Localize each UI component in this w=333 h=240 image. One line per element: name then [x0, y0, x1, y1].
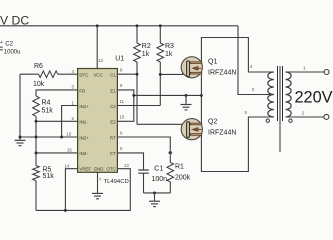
svg-text:R4: R4	[42, 99, 51, 106]
svg-text:RT: RT	[110, 135, 116, 140]
wire: VREF pin 14 down to bottom rail	[65, 169, 77, 211]
svg-text:VCC: VCC	[94, 73, 103, 78]
resistor R5 51k (vertical)	[33, 166, 55, 211]
wire: bottom rail (OTC pin 13 loop)	[36, 169, 130, 211]
svg-text:16: 16	[67, 132, 72, 137]
node: left vertical junction	[19, 136, 22, 139]
svg-text:E1: E1	[110, 88, 116, 93]
svg-text:C2: C2	[110, 104, 116, 109]
phase dot primary	[266, 119, 269, 122]
svg-text:GND: GND	[94, 167, 104, 172]
svg-text:13: 13	[124, 163, 129, 168]
node: R3/gate junction	[159, 73, 162, 76]
node: divider/IN2+ junction	[35, 136, 38, 139]
wire: Q2 gate run from R2	[137, 124, 186, 130]
node: VREF junction	[64, 209, 67, 212]
wire: secondary top lead	[286, 71, 325, 73]
svg-text:100n: 100n	[152, 176, 168, 183]
wire: pin 5 CT to C1	[117, 153, 143, 170]
wire: VCC stub from rail to IC	[96, 26, 98, 69]
node: R2/pin8 junction	[136, 73, 139, 76]
terminal: output bottom	[324, 114, 329, 119]
ground (left)	[15, 140, 26, 145]
node: timing ground junction	[153, 191, 156, 194]
svg-text:DTC: DTC	[79, 73, 88, 78]
wire: pin 15 IN2- to R5	[36, 152, 78, 154]
svg-text:Q1: Q1	[208, 58, 217, 65]
capacitor C1 100n	[138, 166, 167, 193]
node: R2 top junction	[136, 24, 139, 27]
wire: E1/E2 emitter jog	[117, 90, 133, 121]
wire: pin 1 IN1+ down to IN2+	[62, 106, 78, 138]
svg-text:+: +	[0, 40, 3, 46]
resistor R3 1k (vertical)	[157, 26, 174, 106]
wire: ground run to MOSFET sources	[134, 94, 202, 96]
svg-text:TL494CD: TL494CD	[104, 179, 129, 185]
svg-text:R3: R3	[165, 43, 174, 50]
node: R5 top junction	[35, 151, 38, 154]
svg-text:R6: R6	[34, 63, 43, 70]
wire: Q1 drain up and over to transformer primary top	[201, 38, 273, 96]
node: ground stub junction	[185, 94, 188, 97]
IC pin labels	[79, 73, 116, 172]
terminal: output top	[324, 70, 329, 75]
svg-text:220V: 220V	[295, 89, 333, 107]
svg-text:14: 14	[65, 164, 70, 169]
svg-text:R1: R1	[175, 163, 184, 170]
wire: secondary bottom lead	[286, 116, 325, 118]
wire: pin 6 RT to R1	[117, 137, 170, 150]
wire: center tap from rail	[238, 26, 274, 95]
svg-text:R2: R2	[142, 43, 151, 50]
wire: FB pin 3 to R4 top	[36, 89, 78, 91]
wire: IC GND stub	[97, 172, 99, 193]
svg-text:OTC: OTC	[106, 167, 115, 172]
svg-text:U1: U1	[115, 56, 124, 63]
wire: pin 16 IN2+ to left vertical	[20, 136, 78, 138]
wire: ground stub	[154, 193, 156, 201]
wire: pin 11 C2 to R3	[117, 105, 160, 107]
svg-text:IRFZ44N: IRFZ44N	[208, 69, 236, 76]
wire: divider vertical R4 to R5	[35, 121, 37, 165]
svg-text:VREF: VREF	[79, 167, 91, 172]
svg-text:E2: E2	[110, 120, 116, 125]
svg-text:1k: 1k	[142, 51, 150, 58]
svg-text:51k: 51k	[43, 173, 55, 180]
transformer secondary winding	[286, 72, 292, 117]
resistor R1 200k (pot/vertical)	[167, 150, 191, 193]
svg-text:C2: C2	[5, 42, 13, 48]
transistor Q2 IRFZ44N (NMOS, mirrored)	[181, 118, 236, 140]
node: source junction	[200, 94, 203, 97]
ground (timing)	[149, 201, 160, 206]
svg-text:15: 15	[67, 148, 72, 153]
wire: C1/R1 bottom rail	[144, 192, 171, 194]
svg-text:C1: C1	[154, 166, 163, 173]
node: R4 bottom junction	[35, 120, 38, 123]
svg-text:51k: 51k	[42, 108, 54, 115]
wire: +12V rail	[0, 25, 238, 27]
wire: left vertical to ground	[19, 74, 21, 140]
node: IN1+/IN2+ junction	[60, 136, 63, 139]
svg-text:IN1+: IN1+	[79, 104, 89, 109]
node: emitter junction	[132, 94, 135, 97]
svg-text:IN1-: IN1-	[79, 120, 88, 125]
PWM IC U1 TL494CD body	[78, 69, 118, 173]
svg-text:12: 12	[98, 58, 103, 63]
svg-text:200k: 200k	[175, 175, 191, 182]
svg-text:C1: C1	[110, 73, 116, 78]
svg-text:IN2-: IN2-	[79, 151, 88, 156]
node: R3 top junction	[159, 24, 162, 27]
node: VCC junction	[96, 24, 99, 27]
resistor R2 1k (vertical)	[134, 26, 151, 125]
svg-text:10k: 10k	[33, 81, 45, 88]
svg-text:IN2+: IN2+	[79, 135, 89, 140]
phase dot secondary	[289, 119, 292, 122]
svg-text:CT: CT	[110, 151, 116, 156]
svg-text:11: 11	[120, 99, 125, 104]
wire: Q1 gate run from R3	[160, 68, 186, 74]
ground (under Q1 source)	[181, 95, 192, 110]
transistor Q1 IRFZ44N (NMOS)	[181, 57, 236, 78]
svg-text:IRFZ44N: IRFZ44N	[208, 129, 236, 136]
svg-text:FB: FB	[79, 88, 85, 93]
ground (IC)	[92, 193, 103, 198]
transformer T1 primary winding (center tapped)	[268, 72, 274, 117]
IC pin numbers	[65, 67, 130, 182]
resistor R4 51k (vertical)	[33, 90, 54, 122]
wire: pin 2 IN1- to R4 bottom	[36, 120, 78, 122]
wire: Q2 drain down and over to transformer primary bottom	[201, 95, 273, 171]
svg-text:1k: 1k	[165, 51, 173, 58]
capacitor C2 (electrolytic, mostly off-canvas at left edge)	[0, 40, 20, 56]
resistor R6 10k (horizontal)	[20, 63, 78, 88]
wire: pin 8 C1 to R2	[117, 73, 137, 75]
svg-text:1000u: 1000u	[4, 50, 21, 56]
svg-text:10: 10	[120, 115, 125, 120]
svg-text:Q2: Q2	[208, 118, 217, 125]
transformer core	[278, 66, 283, 152]
